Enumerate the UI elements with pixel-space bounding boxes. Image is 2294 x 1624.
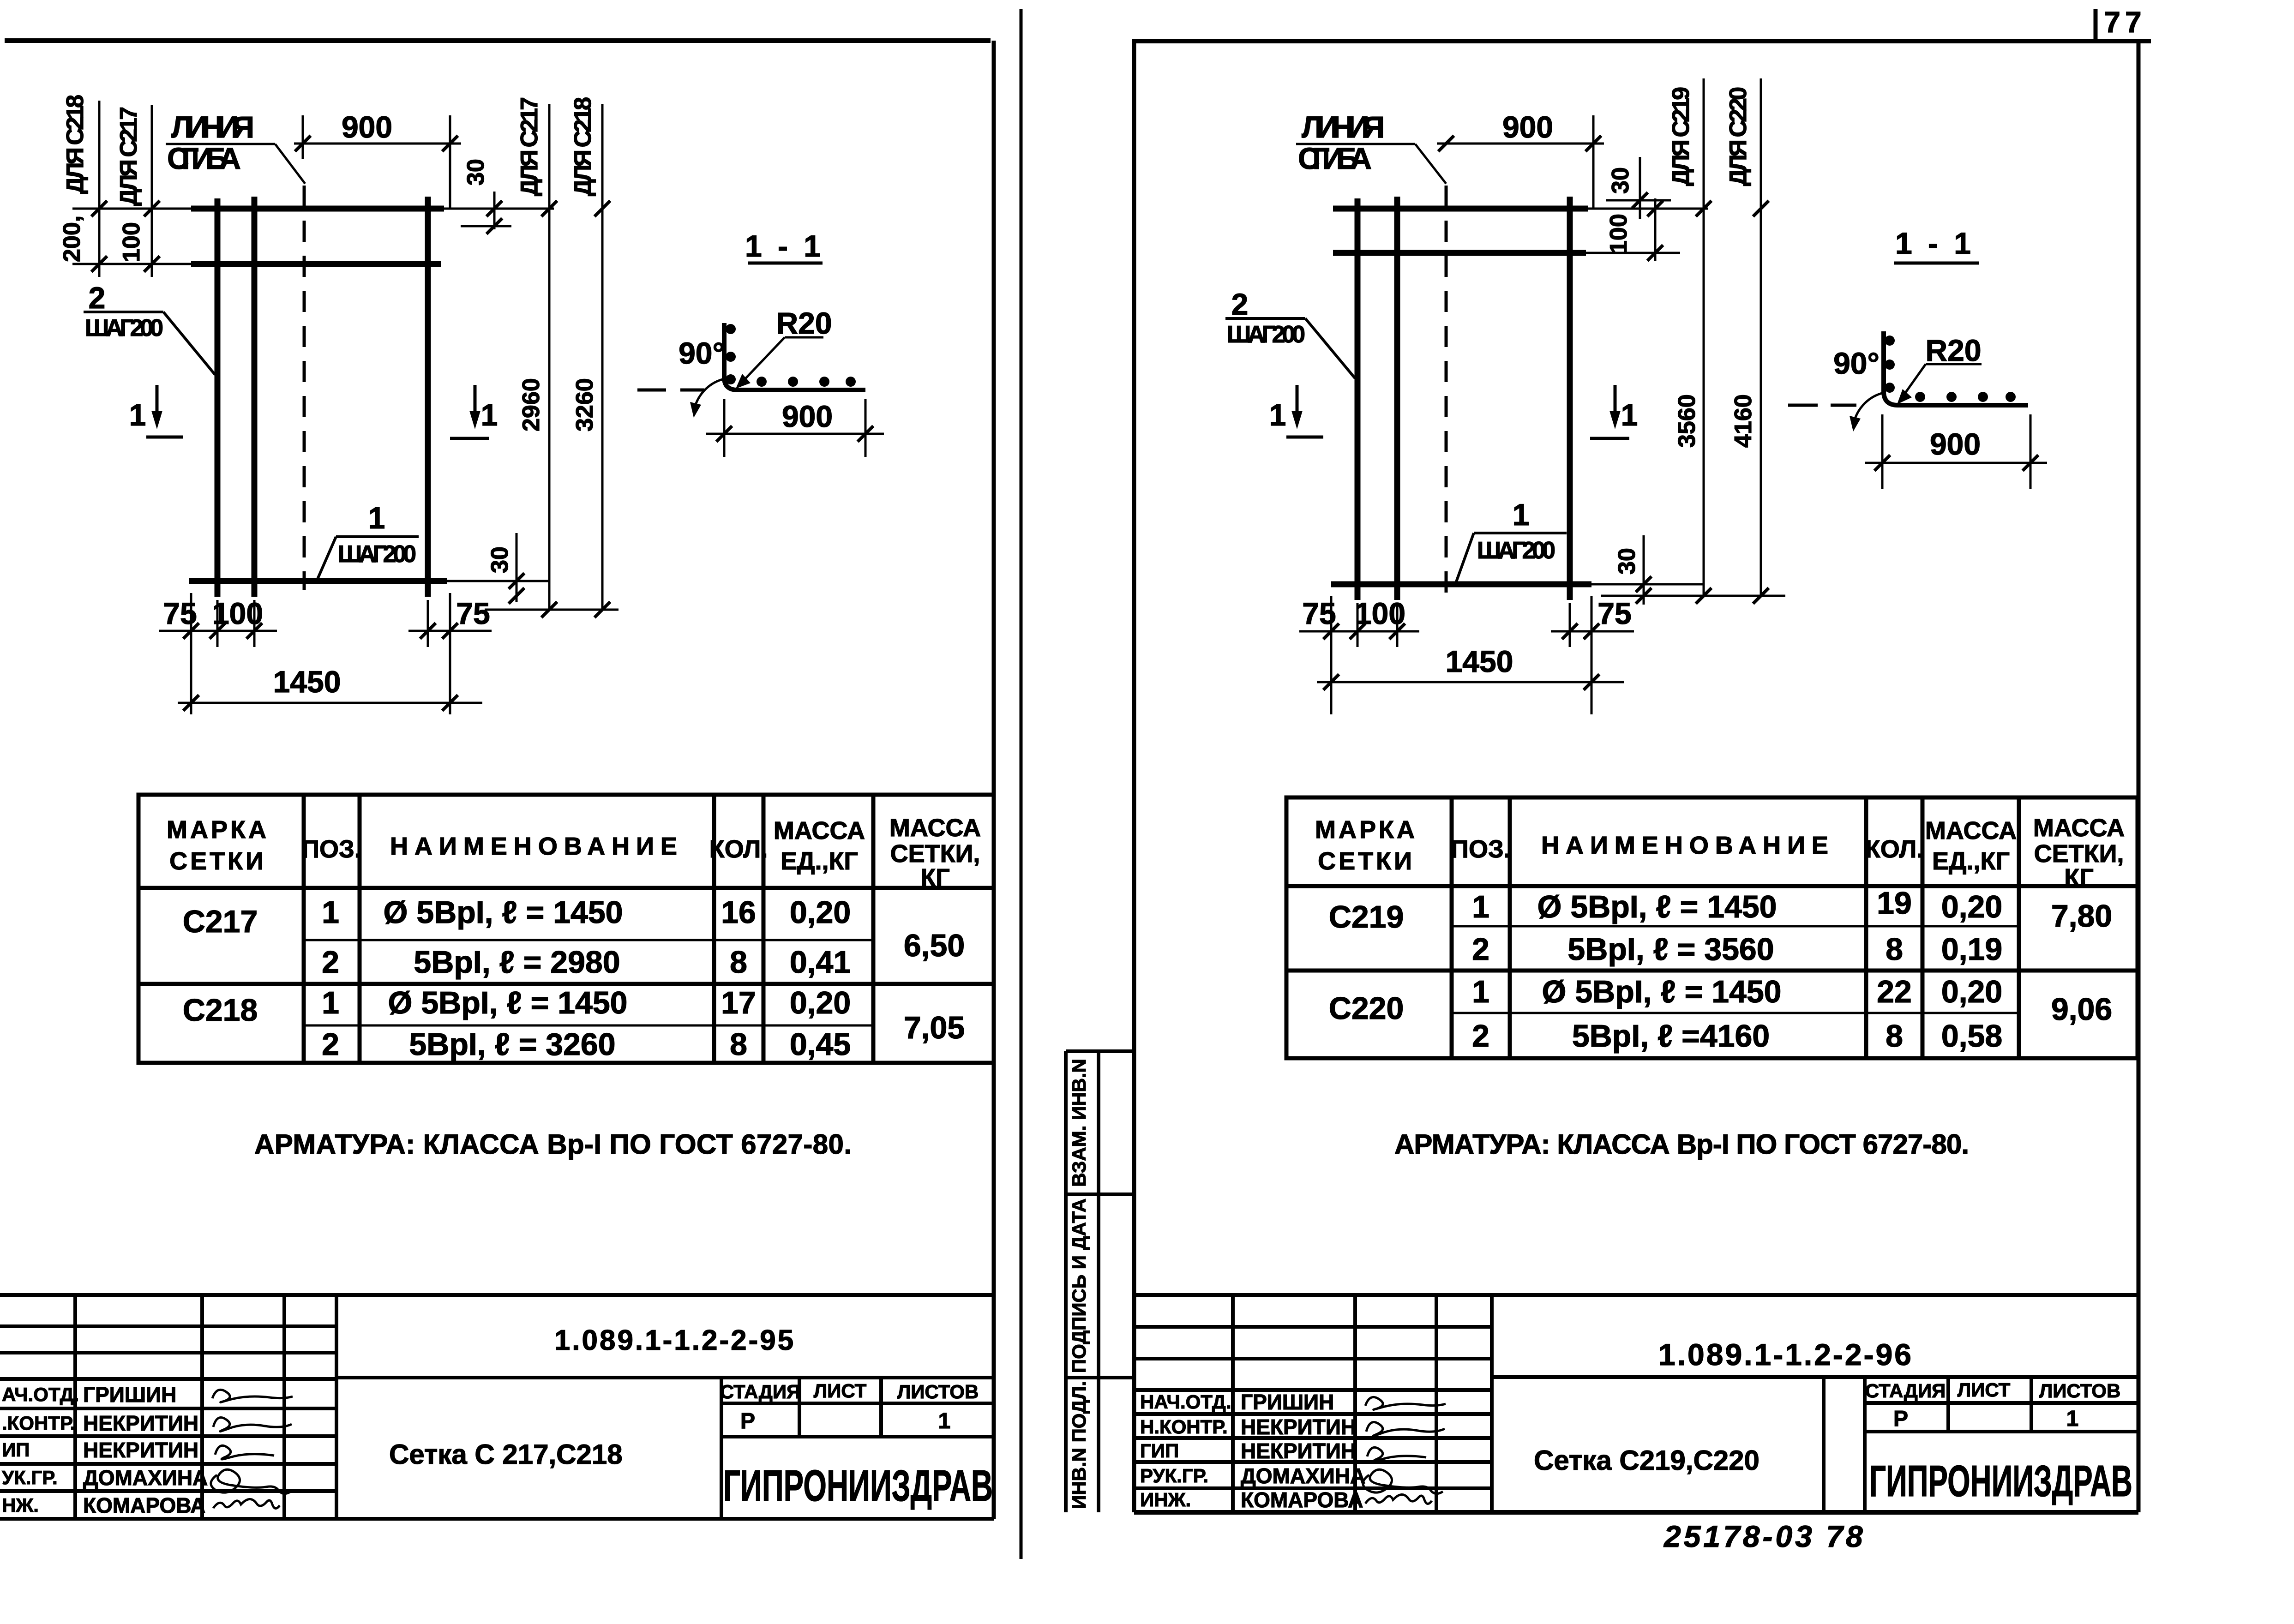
dim 900 section [723,399,726,457]
left signatures [211,1390,293,1508]
svg-text:ДОМАХИНА: ДОМАХИНА [83,1466,208,1490]
svg-text:ДЛЯ С218: ДЛЯ С218 [570,97,596,196]
svg-text:Сетка С219,С220: Сетка С219,С220 [1534,1445,1760,1476]
dim line 3560 / ДЛЯ С219 [1703,78,1705,596]
svg-text:СГИБА: СГИБА [167,141,241,175]
svg-text:ДЛЯ С218: ДЛЯ С218 [62,95,89,194]
mesh bar pos.1 horizontal second [191,261,441,267]
svg-text:2: 2 [1231,287,1249,321]
stamp rotated labels [1068,1059,1090,1509]
svg-text:R20: R20 [776,306,832,340]
svg-text:22: 22 [1877,974,1912,1009]
svg-text:СЕТКИ,: СЕТКИ, [890,840,980,868]
svg-text:1450: 1450 [1446,644,1513,678]
svg-text:5ВрI, ℓ = 3260: 5ВрI, ℓ = 3260 [409,1027,615,1062]
svg-text:100: 100 [1605,214,1632,254]
svg-text:2: 2 [322,945,339,980]
svg-text:ДЛЯ С220: ДЛЯ С220 [1725,87,1752,186]
svg-text:Ø 5ВрI, ℓ = 1450: Ø 5ВрI, ℓ = 1450 [1537,889,1777,924]
svg-text:ЛИНИЯ: ЛИНИЯ [171,110,254,144]
dim 1450 [178,702,482,704]
svg-text:5ВрI, ℓ = 2980: 5ВрI, ℓ = 2980 [414,945,620,980]
svg-text:ВЗАМ. ИНВ.N: ВЗАМ. ИНВ.N [1068,1059,1090,1187]
mesh bar pos.1 horizontal second [1333,250,1586,256]
svg-text:100: 100 [118,222,145,262]
svg-text:3260: 3260 [571,378,598,431]
bottom dimension group [190,593,192,714]
svg-text:7,05: 7,05 [904,1010,965,1045]
svg-text:0,20: 0,20 [1941,889,2002,924]
svg-text:ЛИНИЯ: ЛИНИЯ [1302,110,1385,144]
angle arc with arrow [694,379,722,412]
svg-text:МАССА: МАССА [774,817,865,845]
svg-text:30: 30 [1614,548,1640,575]
svg-text:1: 1 [1513,497,1530,532]
svg-text:1: 1 [322,895,339,930]
svg-text:С220: С220 [1329,991,1404,1026]
svg-text:Ø 5ВрI, ℓ = 1450: Ø 5ВрI, ℓ = 1450 [1542,974,1782,1009]
svg-text:СТАДИЯ: СТАДИЯ [720,1381,800,1402]
svg-text:КОМАРОВА: КОМАРОВА [1241,1488,1363,1512]
svg-text:ЕД.,КГ: ЕД.,КГ [1932,847,2010,875]
svg-text:МАССА: МАССА [889,814,981,842]
svg-text:ИНВ.N ПОДЛ.: ИНВ.N ПОДЛ. [1068,1381,1090,1509]
svg-text:1: 1 [2066,1407,2079,1431]
svg-text:77: 77 [2104,6,2146,39]
svg-text:75: 75 [1302,596,1336,630]
svg-text:ГИП: ГИП [1140,1440,1179,1462]
svg-text:ЛИСТ: ЛИСТ [1958,1379,2011,1401]
svg-text:1: 1 [938,1409,951,1433]
svg-text:КОЛ.: КОЛ. [709,835,768,863]
svg-text:1: 1 [368,501,385,535]
svg-text:С218: С218 [183,993,258,1028]
svg-text:ИП: ИП [2,1439,30,1461]
svg-text:МАРКА: МАРКА [1315,816,1417,844]
svg-text:НЕКРИТИН: НЕКРИТИН [83,1411,198,1435]
left names [83,1383,208,1517]
dim line ДЛЯ С218 (200) [98,101,101,277]
svg-text:2960: 2960 [518,378,545,431]
svg-text:Сетка С 217,С218: Сетка С 217,С218 [389,1439,623,1470]
bent bar section right [1884,331,2028,405]
svg-text:4160: 4160 [1730,394,1757,448]
svg-text:90°: 90° [679,336,725,370]
svg-text:СЕТКИ: СЕТКИ [169,847,266,875]
svg-text:ДОМАХИНА: ДОМАХИНА [1241,1464,1365,1488]
svg-text:ЕД.,КГ: ЕД.,КГ [781,847,858,875]
svg-text:Н.КОНТР.: Н.КОНТР. [1140,1416,1228,1438]
svg-text:1: 1 [1269,398,1286,432]
svg-text:2: 2 [322,1027,339,1062]
svg-text:900: 900 [1930,427,1981,461]
dim line 3260 / ДЛЯ С218 right [601,104,604,610]
svg-text:ШАГ200: ШАГ200 [1227,321,1305,348]
svg-text:.КОНТР.: .КОНТР. [2,1412,75,1434]
mesh bar pos.1 horizontal bottom [1331,581,1591,587]
svg-text:1: 1 [322,985,339,1020]
svg-text:ГИПРОНИИЗДРАВ: ГИПРОНИИЗДРАВ [723,1461,993,1510]
svg-text:ДЛЯ С219: ДЛЯ С219 [1668,87,1694,186]
svg-text:8: 8 [730,945,747,980]
svg-text:75: 75 [163,596,197,630]
dim line ДЛЯ С217 (100) [151,105,153,277]
mesh bar pos.2 vertical 2 [252,197,258,597]
svg-text:Р: Р [1893,1407,1908,1431]
svg-text:8: 8 [730,1027,747,1062]
svg-text:СЕТКИ: СЕТКИ [1318,847,1415,875]
svg-text:30: 30 [486,546,513,573]
right signatures [1363,1397,1446,1504]
svg-text:7,80: 7,80 [2051,899,2112,934]
svg-text:2: 2 [89,281,106,315]
RIGHT TITLE BLOCK [1134,1295,2138,1512]
svg-text:75: 75 [1597,596,1631,630]
svg-text:900: 900 [1502,110,1553,144]
svg-text:ПОДПИСЬ И ДАТА: ПОДПИСЬ И ДАТА [1068,1199,1090,1373]
svg-text:КОМАРОВА: КОМАРОВА [83,1493,205,1517]
svg-text:МАССА: МАССА [2033,814,2125,842]
svg-text:900: 900 [342,110,392,144]
dim row 75 right [408,630,492,632]
svg-text:1 - 1: 1 - 1 [1895,226,1975,260]
svg-text:0,45: 0,45 [790,1027,851,1062]
ext line y572 to left [72,263,191,265]
dim line 4160 / ДЛЯ С220 [1760,78,1762,596]
svg-text:90°: 90° [1833,346,1880,380]
svg-text:1: 1 [129,398,146,432]
svg-text:25178-03 78: 25178-03 78 [1663,1519,1866,1553]
svg-text:8: 8 [1886,1019,1903,1054]
fold centerline dashed [1445,186,1448,593]
svg-text:НАИМЕНОВАНИЕ: НАИМЕНОВАНИЕ [1541,832,1835,859]
bottom right baseline of vertical dims [485,609,619,611]
svg-text:ЛИСТ: ЛИСТ [814,1380,867,1402]
svg-text:19: 19 [1877,886,1912,921]
svg-text:1: 1 [481,398,498,432]
mesh bar pos.2 vertical right [425,197,431,597]
svg-text:1.089.1-1.2-2-96: 1.089.1-1.2-2-96 [1658,1337,1913,1372]
svg-text:16: 16 [721,895,756,930]
svg-text:Р: Р [740,1409,755,1433]
svg-text:ГРИШИН: ГРИШИН [1241,1390,1334,1414]
svg-text:75: 75 [456,596,490,630]
LEFT TITLE BLOCK [0,1295,994,1519]
svg-text:ШАГ200: ШАГ200 [85,315,163,342]
right job titles [1140,1391,1231,1510]
svg-text:30: 30 [1607,167,1634,194]
bottom dimension group right page [1330,596,1333,714]
svg-text:R20: R20 [1925,333,1981,367]
svg-text:200,: 200, [59,216,85,262]
svg-text:ДЛЯ С217: ДЛЯ С217 [115,107,142,206]
page number 77 [2094,9,2098,41]
left table header texts [167,814,981,892]
svg-text:5ВрI, ℓ = 3560: 5ВрI, ℓ = 3560 [1567,932,1774,967]
svg-text:НЕКРИТИН: НЕКРИТИН [83,1438,198,1462]
right names [1241,1390,1365,1512]
svg-text:1.089.1-1.2-2-95: 1.089.1-1.2-2-95 [554,1324,795,1356]
dim 900 section right [1881,414,1884,489]
svg-text:РУК.ГР.: РУК.ГР. [1140,1465,1208,1486]
svg-text:ШАГ200: ШАГ200 [338,541,416,568]
svg-text:100: 100 [1355,596,1405,630]
axis dashes left of section [637,389,666,392]
svg-text:9,06: 9,06 [2051,992,2112,1027]
svg-text:КОЛ.: КОЛ. [1865,835,1924,863]
left job titles [2,1384,79,1516]
svg-text:НЖ.: НЖ. [2,1494,39,1516]
svg-text:2: 2 [1472,932,1489,967]
svg-text:ПОЗ.: ПОЗ. [1451,835,1511,863]
RIGHT TABLE [1286,797,2138,1058]
svg-text:СТАДИЯ: СТАДИЯ [1865,1380,1946,1402]
leader under ЛИНИЯ СГИБА [166,143,275,145]
svg-text:1 - 1: 1 - 1 [745,229,824,263]
ext line y452 to left [72,208,191,210]
bar dots on vertical [726,324,736,334]
dim line 2960 / ДЛЯ С217 right [548,104,551,610]
svg-text:КГ: КГ [2064,864,2094,892]
svg-text:100: 100 [212,596,263,630]
mesh bar pos.2 vertical 1 [215,198,221,597]
left page right border [992,41,996,1519]
right table header texts [1315,814,2125,892]
svg-text:2: 2 [1472,1019,1489,1054]
svg-text:УК.ГР.: УК.ГР. [2,1467,58,1488]
svg-text:ДЛЯ С217: ДЛЯ С217 [516,97,543,196]
LEFT TABLE [138,795,994,1063]
svg-text:ЛИСТОВ: ЛИСТОВ [897,1381,979,1402]
svg-text:17: 17 [721,985,756,1020]
svg-text:ШАГ200: ШАГ200 [1477,537,1555,564]
svg-text:АРМАТУРА: КЛАССА Вр-I ПО Г: АРМАТУРА: КЛАССА Вр-I ПО ГОСТ 6727-80. [1394,1129,1969,1160]
right page frame [1134,39,2151,43]
svg-text:АРМАТУРА: КЛАССА Вр-I ПО: АРМАТУРА: КЛАССА Вр-I ПО ГОСТ 6727-80. [254,1129,852,1160]
svg-text:0,58: 0,58 [1941,1019,2002,1054]
svg-text:НЕКРИТИН: НЕКРИТИН [1241,1415,1356,1439]
svg-text:30: 30 [462,159,489,186]
svg-text:Ø 5ВрI, ℓ = 1450: Ø 5ВрI, ℓ = 1450 [388,985,628,1020]
svg-text:ГРИШИН: ГРИШИН [83,1383,176,1407]
svg-text:0,20: 0,20 [1941,974,2002,1009]
mesh bar pos.2 vertical right [1567,197,1573,600]
svg-text:ЛИСТОВ: ЛИСТОВ [2039,1380,2121,1402]
svg-text:900: 900 [782,399,833,433]
page divider line [1020,9,1023,1559]
mesh bar pos.1 horizontal bottom [189,578,447,584]
svg-text:1: 1 [1621,398,1638,432]
svg-text:5ВрI, ℓ =4160: 5ВрI, ℓ =4160 [1572,1019,1770,1054]
svg-text:6,50: 6,50 [904,928,965,963]
svg-text:1: 1 [1472,974,1489,1009]
svg-text:8: 8 [1886,932,1903,967]
svg-text:КГ: КГ [920,864,950,892]
svg-text:0,20: 0,20 [790,895,851,930]
svg-text:1: 1 [1472,889,1489,924]
left page top border [5,38,991,43]
svg-text:С217: С217 [183,904,258,939]
left table data [183,895,965,1062]
svg-text:НЕКРИТИН: НЕКРИТИН [1241,1439,1356,1463]
svg-text:ПОЗ.: ПОЗ. [301,835,361,863]
svg-text:ГИПРОНИИЗДРАВ: ГИПРОНИИЗДРАВ [1869,1456,2132,1506]
dim row 75/100 left [159,630,277,632]
svg-text:ИНЖ.: ИНЖ. [1140,1489,1191,1510]
fold centerline (линия сгиба) dashed [303,186,306,590]
mesh bar pos.1 horizontal top [1333,206,1588,212]
bar dots on horizontal [757,377,767,387]
svg-text:МАРКА: МАРКА [167,816,269,844]
svg-text:АЧ.ОТД.: АЧ.ОТД. [2,1384,79,1405]
mesh bar pos.2 vertical 1 [1355,198,1361,600]
svg-text:0,41: 0,41 [790,945,851,980]
svg-text:НАИМЕНОВАНИЕ: НАИМЕНОВАНИЕ [390,833,684,860]
mesh bar pos.1 horizontal top [191,206,444,212]
stamp column boxes [1066,1051,1134,1512]
svg-text:С219: С219 [1329,899,1404,935]
svg-text:0,19: 0,19 [1941,932,2002,967]
svg-text:СЕТКИ,: СЕТКИ, [2034,840,2124,868]
right table data [1329,886,2112,1054]
mesh bar pos.2 vertical 2 [1394,197,1400,600]
svg-text:1450: 1450 [273,665,341,699]
svg-text:СГИБА: СГИБА [1298,141,1372,175]
svg-text:3560: 3560 [1674,394,1700,448]
svg-text:0,20: 0,20 [790,985,851,1020]
bent bar section [724,323,865,390]
svg-text:Ø 5ВрI, ℓ = 1450: Ø 5ВрI, ℓ = 1450 [384,895,623,930]
svg-text:НАЧ.ОТД.: НАЧ.ОТД. [1140,1391,1231,1413]
svg-text:МАССА: МАССА [1925,817,2017,845]
